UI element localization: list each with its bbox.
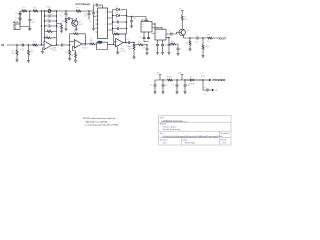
svg-text:U?: U? [142,24,144,26]
svg-text:2: 2 [98,16,99,18]
svg-text:Q?: Q? [187,30,191,32]
svg-text:OUT: OUT [219,36,227,40]
svg-text:100k: 100k [47,29,51,31]
capacitor C in series [20,42,24,51]
svg-text:7: 7 [105,18,106,20]
feedback loop U2A [113,31,125,43]
svg-text:J201: J201 [78,24,83,26]
op-amp U1A [44,41,58,52]
rail resistor [167,77,172,81]
svg-text:6: 6 [105,24,106,26]
VCC tap 2 [178,71,183,80]
cap rung [113,26,127,31]
wire [57,10,94,12]
connector J1 (input jack) [13,21,20,29]
svg-text:5: 5 [98,28,99,30]
ground under U1B [70,51,77,63]
svg-text:C?: C? [153,45,156,47]
series resistor to OUT [203,35,218,44]
op-amp U2A [108,38,126,53]
svg-text:Document: Document [221,132,230,135]
node junction [29,10,31,12]
wire rails [45,11,57,34]
lower branch to battery pin [203,80,219,95]
series resistor network lower right [169,41,182,56]
cap to ground right of ladder2, wire feeds rect-A [127,16,147,28]
svg-text:1M: 1M [77,13,80,15]
emitter resistor [185,37,192,51]
node vertical from RR junction to input row [41,10,42,45]
resistor to ground [61,18,68,31]
transistor Q2 [179,29,190,38]
svg-text:4: 4 [98,24,99,26]
ground under U2A + input [116,47,119,54]
capacitor C [60,11,68,18]
series resistor [33,42,38,46]
series resistor to next stage [133,42,147,46]
svg-text:100R: 100R [167,77,172,79]
svg-text:10k: 10k [33,42,36,44]
svg-text:Revision:: Revision: [160,139,168,141]
twin-T rails joining U1A loop [44,34,57,46]
svg-text:4k7: 4k7 [138,42,142,44]
svg-text:POWER: POWER [213,78,226,82]
node [88,10,89,11]
svg-text:TL072: TL072 [119,51,126,53]
svg-text:C?: C? [169,31,172,33]
svg-text:C?: C? [195,35,198,37]
svg-text:D?: D? [116,12,119,14]
resistor to ground [27,44,33,62]
svg-text:2: 2 [156,35,157,37]
svg-text:1M: 1M [12,53,15,55]
svg-text:ROTTWEILER: ROTTWEILER [76,4,91,6]
svg-text:4u7: 4u7 [31,21,35,23]
resistor rung [45,29,57,32]
resistor from VCC [181,13,187,30]
port IN [2,43,45,47]
resistor to ground [12,44,19,62]
svg-text:NOTES unless otherwise specifi: NOTES unless otherwise specified: [83,117,116,120]
svg-text:R?: R? [74,31,77,33]
cap to ground right of IC2b [167,37,173,54]
svg-text:C?: C? [93,3,96,5]
svg-text:IN: IN [2,43,5,47]
svg-text:-: - [45,43,46,45]
net label bubble MOD [97,41,108,50]
svg-text:9V: 9V [216,90,219,92]
resistor R1 [21,7,27,12]
svg-text:-: - [75,42,76,44]
svg-text:TL072: TL072 [82,47,89,49]
svg-text:10k: 10k [65,52,68,54]
capacitor rung [45,24,57,28]
filter cap 1 [150,80,157,94]
svg-text:C?: C? [127,39,130,41]
svg-text:100k: 100k [33,9,37,11]
svg-text:10k: 10k [61,21,64,23]
resistor to ground right of ladder [57,24,64,33]
svg-text:C?: C? [15,13,18,15]
svg-text:Author:: Author: [160,123,167,126]
svg-text:10k: 10k [184,19,187,21]
svg-text:100k: 100k [128,49,132,51]
ground at + input [41,47,44,53]
ground under jack [28,27,31,31]
transistor Q1 [72,18,84,31]
wire to net bubble with series resistor [82,39,97,45]
svg-text:1u: 1u [139,37,141,39]
capacitor C1 [15,11,24,18]
resistor divider to ground [128,43,135,59]
svg-text:100k: 100k [21,9,25,11]
svg-text:D?: D? [190,77,193,79]
svg-text:10k: 10k [70,55,73,57]
svg-text:U?: U? [156,32,158,34]
node [65,10,66,11]
port OUT [218,36,227,40]
top cap of IC1 [93,3,103,10]
svg-text:D?: D? [116,6,119,8]
wire top [20,10,45,12]
svg-text:TL072: TL072 [52,50,59,52]
diode rung D1 [113,6,127,10]
VCC tap 1 [157,72,161,80]
output wire with cap [123,39,135,48]
svg-text:1u: 1u [14,20,16,22]
svg-text:1u: 1u [61,48,63,50]
svg-text:2. unused op-amps tied off per: 2. unused op-amps tied off per BOM [85,124,119,127]
resistor R2 [33,7,38,12]
svg-text:Sheets: Sheets [221,138,227,141]
svg-text:C?: C? [60,42,63,44]
caps under IC2a [139,35,150,42]
svg-text:2k2: 2k2 [50,14,54,16]
capacitor rung [45,14,57,18]
svg-text:Vassallo Engineering: Vassallo Engineering [163,128,181,131]
svg-text:2n2: 2n2 [84,15,88,17]
svg-text:18 Feb 2020: 18 Feb 2020 [185,143,196,145]
svg-text:10k: 10k [171,41,174,43]
svg-text:Title: Title [160,116,164,119]
cap to ground at x=147 [142,44,148,55]
svg-text:R?: R? [208,35,211,37]
svg-text:1u: 1u [180,48,182,50]
svg-text:1M: 1M [30,51,33,53]
svg-text:D:\Users\Chuck\Documents\Schem: D:\Users\Chuck\Documents\Schematics\Cold… [163,135,223,138]
capacitor on gate [66,17,72,23]
resistor R3 [76,8,81,15]
svg-text:1n: 1n [204,93,206,95]
volume resistor to ground [201,37,209,57]
svg-text:1: 1 [98,12,99,14]
diode D on rail [185,77,203,86]
svg-text:1. All diodes are 1N4148: 1. All diodes are 1N4148 [85,121,108,124]
svg-text:C?: C? [21,42,24,44]
capacitor C1b (polarized) [14,18,21,25]
svg-text:R?: R? [46,35,49,37]
cap rung [113,19,127,24]
VCC supply [179,8,184,12]
svg-text:100n: 100n [201,75,205,77]
capacitor rung [45,19,57,23]
wire IC2b right pin to cap then transistor [169,31,179,36]
capacitor on right rail [84,11,91,20]
filter cap 4 [183,79,189,94]
svg-text:1N5817: 1N5817 [188,84,196,86]
svg-text:C?: C? [150,85,153,87]
svg-text:R?: R? [77,8,80,10]
svg-text:9V: 9V [157,72,160,74]
wire + series cap [50,42,70,51]
svg-text:1 of 1: 1 of 1 [222,143,227,145]
trimmer RV1 [45,7,57,16]
ladder2 rail junctions [112,15,127,29]
svg-text:-: - [116,41,117,43]
svg-text:8: 8 [142,27,143,29]
svg-text:3: 3 [98,20,99,22]
svg-text:100k: 100k [205,46,209,48]
svg-text:4u7: 4u7 [133,18,137,20]
svg-text:8: 8 [105,12,106,14]
svg-text:47u: 47u [164,85,167,87]
feedback loop of U1B [70,31,86,45]
svg-text:RV?: RV? [47,7,52,9]
capacitor C2 (4u7) [28,11,35,27]
svg-text:1u: 1u [89,21,91,23]
caps under IC2b [153,40,159,54]
svg-text:C?: C? [172,85,175,87]
cap left of IC1 [89,10,96,30]
svg-text:9V: 9V [179,8,182,10]
svg-text:1u: 1u [164,45,166,47]
wire jack to node [20,11,30,27]
output cap [190,35,203,44]
svg-text:Chuck D. Bones: Chuck D. Bones [163,126,177,128]
svg-text:1.01: 1.01 [163,143,167,145]
svg-text:10k: 10k [185,42,188,44]
node to POWER connector [201,73,226,82]
svg-text:10u: 10u [195,41,198,43]
svg-text:VA: VA [178,71,181,74]
svg-text:10n: 10n [60,15,63,17]
power rail [155,79,203,81]
op-amp U1B [70,40,89,51]
rail junctions [44,10,57,26]
svg-text:100n: 100n [20,49,24,51]
diode rung D2 [113,12,127,16]
filter cap 3 [172,79,179,94]
filter cap 2 [161,79,167,94]
node, resistor to ground [65,44,72,60]
svg-text:C?: C? [142,48,145,50]
svg-text:Date:: Date: [183,138,188,141]
svg-text:1k: 1k [207,41,209,43]
